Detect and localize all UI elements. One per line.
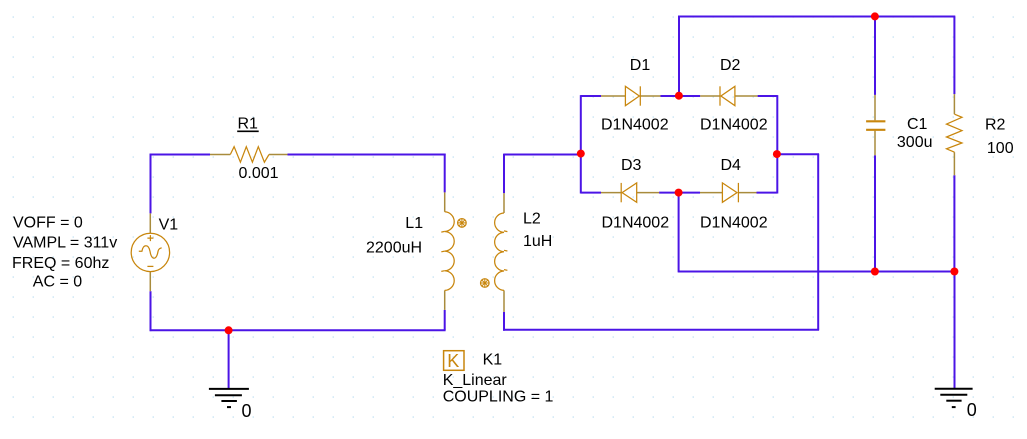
- node bottom rail R2 tap: [950, 268, 958, 276]
- wire D2 anode lead: [735, 95, 758, 97]
- svg-text:L2: L2: [523, 211, 541, 228]
- svg-text:R2: R2: [985, 116, 1006, 133]
- wire D2 cathode lead: [700, 95, 720, 97]
- wire top-left horizontal to R1: [150, 154, 210, 156]
- svg-text:100: 100: [987, 140, 1014, 157]
- svg-text:D1N4002: D1N4002: [700, 116, 768, 133]
- svg-text:K1: K1: [483, 351, 503, 368]
- polarity dot L2: [481, 279, 490, 288]
- svg-text:300u: 300u: [897, 134, 933, 151]
- diode D4: [722, 183, 737, 202]
- wire bridge top output vertical: [678, 16, 680, 96]
- diode D1: [625, 86, 639, 105]
- svg-text:VOFF = 0: VOFF = 0: [13, 214, 83, 231]
- wire bottom rail left loop: [150, 329, 446, 331]
- wire L2 return vertical: [817, 154, 819, 330]
- wire L2 bottom pin: [503, 290, 505, 312]
- wire L1 bottom vertical: [444, 310, 446, 330]
- wire ground2 drop: [954, 272, 956, 389]
- svg-text:FREQ = 60hz: FREQ = 60hz: [12, 255, 109, 272]
- ground 2: [935, 389, 973, 407]
- wire bridge top row middle: [661, 95, 701, 97]
- wire bottom output rail: [678, 271, 955, 273]
- wire bridge bottom row right stub: [757, 192, 778, 194]
- wire ground1 drop: [228, 330, 230, 389]
- svg-text:D4: D4: [721, 157, 742, 174]
- wire D1 cathode lead: [640, 95, 660, 97]
- wire C1 top vertical: [874, 17, 876, 95]
- wire bridge top row left stub: [581, 95, 601, 97]
- wire R1 right lead: [269, 154, 288, 156]
- svg-text:VAMPL = 311v: VAMPL = 311v: [13, 234, 117, 251]
- wire L2 bottom return horizontal: [503, 329, 819, 331]
- wire D1 anode lead: [601, 95, 625, 97]
- svg-text:C1: C1: [907, 116, 928, 133]
- wire bridge bottom row middle: [659, 192, 700, 194]
- wire R1 to L1 top corner: [288, 154, 446, 156]
- node bottom rail C1 tap: [871, 268, 879, 276]
- wire D4 cathode lead: [738, 192, 756, 194]
- diode D3: [622, 183, 637, 202]
- wire R2 bottom vertical: [953, 175, 955, 272]
- svg-text:V1: V1: [159, 216, 179, 233]
- svg-text:K_Linear: K_Linear: [443, 372, 508, 389]
- wire C1 bottom vertical: [874, 155, 876, 271]
- wire D3 anode lead: [637, 192, 659, 194]
- wire left vertical to V1: [150, 154, 152, 214]
- svg-text:L1: L1: [405, 215, 423, 232]
- ground 1: [209, 389, 249, 407]
- wire V1 top pin: [149, 213, 151, 233]
- svg-text:D1N4002: D1N4002: [602, 215, 670, 232]
- svg-text:R1: R1: [238, 115, 259, 132]
- wire bridge right out to return: [777, 153, 819, 155]
- svg-text:COUPLING = 1: COUPLING = 1: [443, 388, 554, 405]
- wire L1 bottom pin: [444, 290, 446, 310]
- node top rail C1 tap: [871, 12, 879, 20]
- polarity dot L1: [458, 219, 467, 228]
- wire D4 anode lead: [700, 192, 722, 194]
- node bridge bottom output: [675, 189, 683, 197]
- node bridge left input: [577, 150, 585, 158]
- underline of R1: [237, 130, 259, 132]
- svg-text:0: 0: [242, 401, 252, 421]
- wire L2 top to bridge left: [504, 154, 581, 156]
- wire L1 top vertical: [444, 154, 446, 193]
- wire C1 top pin: [874, 95, 876, 120]
- resistor R1: [230, 147, 269, 163]
- svg-text:1uH: 1uH: [523, 233, 552, 250]
- svg-text:D2: D2: [720, 57, 741, 74]
- svg-text:2200uH: 2200uH: [366, 240, 422, 257]
- wire L2 top pin: [503, 193, 505, 213]
- wire D3 cathode lead: [601, 192, 621, 194]
- diode D2: [721, 86, 735, 105]
- wire L1 top pin: [444, 192, 446, 211]
- svg-text:0.001: 0.001: [239, 165, 279, 182]
- capacitor C1: [866, 120, 885, 122]
- node ground1 junction: [225, 326, 233, 334]
- svg-text:D3: D3: [621, 157, 642, 174]
- voltage source V1: [131, 233, 169, 271]
- wire R1 left lead: [210, 154, 230, 156]
- svg-text:D1: D1: [630, 57, 651, 74]
- wire C1 bottom pin: [874, 131, 876, 156]
- wire R2 top pin: [953, 94, 955, 114]
- wire R2 bottom pin: [953, 152, 955, 175]
- wire bridge right rail: [776, 95, 778, 193]
- wire bridge top row right stub: [758, 95, 778, 97]
- wire bridge bottom output vertical: [678, 193, 680, 273]
- node bridge right input: [773, 150, 781, 158]
- svg-text:K: K: [447, 351, 459, 371]
- wire bridge left rail: [580, 95, 582, 193]
- wire bridge bottom row left stub: [581, 192, 601, 194]
- wire L2 top vertical: [503, 154, 505, 194]
- svg-text:0: 0: [967, 400, 977, 420]
- svg-text:AC = 0: AC = 0: [33, 274, 82, 291]
- inductor L1: [445, 212, 455, 291]
- wire top rail: [678, 16, 955, 18]
- wire V1 bottom to bottom rail: [150, 291, 152, 331]
- svg-text:D1N4002: D1N4002: [700, 215, 768, 232]
- resistor R2: [947, 114, 963, 152]
- svg-text:D1N4002: D1N4002: [601, 116, 669, 133]
- inductor L2: [495, 213, 504, 290]
- node bridge top output: [675, 92, 683, 100]
- wire V1 bottom pin: [149, 272, 151, 292]
- coupling K1 symbol: [444, 351, 464, 371]
- wire L2 bottom vertical: [503, 312, 505, 331]
- wire R2 top vertical: [953, 17, 955, 95]
